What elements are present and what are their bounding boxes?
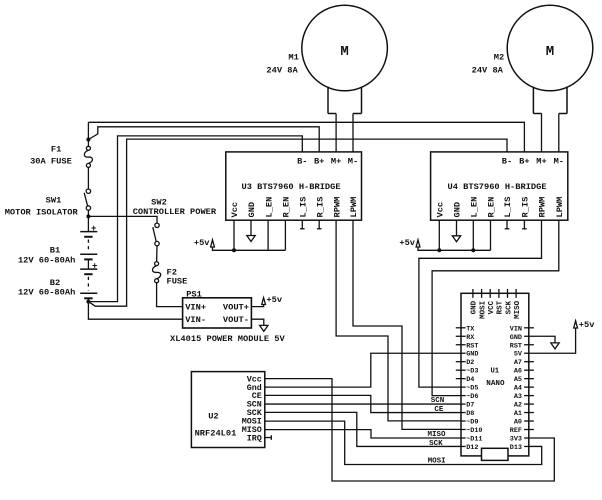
svg-text:GND: GND bbox=[453, 202, 463, 218]
label M2 24V 8A bbox=[472, 53, 505, 76]
svg-text:IRQ: IRQ bbox=[247, 433, 262, 443]
svg-text:MISO: MISO bbox=[427, 431, 446, 439]
pin U1 ~D3 unconnected bbox=[456, 369, 466, 371]
node U3 Vcc junction bbox=[232, 248, 236, 252]
svg-text:L_EN: L_EN bbox=[264, 197, 274, 218]
pin U1 ICSP VCC bbox=[489, 289, 491, 298]
svg-text:D4: D4 bbox=[466, 376, 474, 384]
svg-text:MISO: MISO bbox=[514, 300, 522, 319]
svg-text:XL4015 POWER MODULE 5V: XL4015 POWER MODULE 5V bbox=[170, 334, 285, 344]
svg-text:A5: A5 bbox=[514, 376, 522, 384]
svg-text:U1: U1 bbox=[490, 367, 499, 375]
svg-text:~D5: ~D5 bbox=[466, 385, 478, 393]
svg-text:+5v: +5v bbox=[579, 320, 595, 330]
svg-text:A7: A7 bbox=[514, 359, 522, 367]
svg-text:3V3: 3V3 bbox=[510, 435, 522, 443]
svg-text:GND: GND bbox=[466, 351, 478, 359]
svg-text:A4: A4 bbox=[514, 385, 522, 393]
svg-text:A6: A6 bbox=[514, 368, 522, 376]
svg-text:~D10: ~D10 bbox=[466, 427, 482, 435]
wire U4 RPWM to nano D5 bbox=[419, 220, 542, 387]
pin U1 A1 unconnected bbox=[524, 412, 534, 414]
wire +5v rail U3 bbox=[213, 247, 286, 250]
pin U1 REF unconnected bbox=[524, 429, 534, 431]
wire M1 terminal to U3 M+ bbox=[335, 114, 337, 152]
svg-text:VIN: VIN bbox=[510, 325, 522, 333]
svg-text:FUSE: FUSE bbox=[167, 277, 188, 287]
svg-text:Vcc: Vcc bbox=[436, 202, 446, 218]
pin U1 A7 unconnected bbox=[524, 361, 534, 363]
svg-text:12V 60-80Ah: 12V 60-80Ah bbox=[18, 255, 75, 265]
svg-text:A0: A0 bbox=[514, 419, 522, 427]
svg-text:M1: M1 bbox=[288, 53, 298, 63]
pin U4 R_IS unconnected bbox=[522, 220, 527, 229]
pin U1 A3 unconnected bbox=[524, 395, 534, 397]
wire U2 SCK to nano D12 bbox=[265, 412, 461, 446]
wire U3 GND pin bbox=[250, 220, 252, 235]
pin U1 A5 unconnected bbox=[524, 378, 534, 380]
H-bridge module U3 bbox=[226, 152, 362, 220]
pin U1 3V3 bbox=[524, 437, 529, 439]
svg-text:~D9: ~D9 bbox=[466, 419, 478, 427]
wire M2 terminal to U4 M+ bbox=[541, 114, 543, 152]
power +5v at PS1 output bbox=[262, 295, 283, 305]
ground at PS1 output bbox=[260, 325, 268, 331]
svg-text:L_EN: L_EN bbox=[470, 197, 480, 218]
svg-text:VOUT+: VOUT+ bbox=[223, 303, 249, 313]
pin U1 ~D6 bbox=[461, 395, 466, 397]
node U4 Vcc junction bbox=[437, 248, 441, 252]
wire U1 GND to ground bbox=[529, 336, 555, 343]
label B2 12V 60-80Ah bbox=[18, 278, 75, 297]
svg-text:24V 8A: 24V 8A bbox=[266, 66, 298, 76]
svg-text:B+: B+ bbox=[314, 156, 324, 166]
wire battery positive bus to U3 B+ bbox=[88, 127, 319, 152]
wire U4 LPWM to nano D6 bbox=[432, 220, 559, 395]
svg-text:+: + bbox=[91, 224, 96, 234]
svg-text:LPWM: LPWM bbox=[555, 197, 565, 218]
motor M2 bbox=[507, 5, 593, 113]
wire U2 CE to nano D8 bbox=[265, 395, 461, 412]
pin U1 ~D9 bbox=[461, 420, 466, 422]
wire U4 GND pin bbox=[456, 220, 458, 236]
connector U1 USB bbox=[482, 448, 509, 460]
svg-text:R_EN: R_EN bbox=[282, 197, 292, 218]
switch SW1 bbox=[84, 189, 90, 210]
label F2 FUSE bbox=[167, 268, 188, 287]
pin U1 D2 unconnected bbox=[456, 361, 466, 363]
pin U1 ~D10 bbox=[461, 429, 466, 431]
svg-text:M: M bbox=[546, 44, 554, 60]
wire U2 MISO to nano D11 bbox=[265, 430, 461, 438]
wire U3 Vcc to +5v rail bbox=[233, 220, 235, 250]
label M1 24V 8A bbox=[266, 53, 298, 76]
wire PS1 VOUT+ to +5v bbox=[251, 304, 263, 306]
svg-text:D12: D12 bbox=[466, 444, 478, 452]
wire U3 RPWM to nano D9 bbox=[336, 220, 461, 421]
pin U1 GND bbox=[524, 335, 529, 337]
wire F2 to PS1 VIN+ bbox=[157, 283, 183, 307]
pin U1 D7 bbox=[461, 403, 466, 405]
svg-text:U4 BTS7960 H-BRIDGE: U4 BTS7960 H-BRIDGE bbox=[448, 182, 547, 192]
svg-text:U2: U2 bbox=[208, 412, 218, 422]
wire positive rail top bbox=[87, 122, 89, 146]
pin U1 ~D11 bbox=[461, 437, 466, 439]
pin U1 RST unconnected bbox=[456, 344, 466, 346]
wire U4 Vcc to +5v rail bbox=[438, 220, 440, 250]
svg-text:A2: A2 bbox=[514, 402, 522, 410]
battery B1 bbox=[80, 224, 97, 259]
microcontroller U1 Arduino NANO bbox=[461, 293, 529, 456]
fuse F2 bbox=[153, 262, 161, 283]
pin U3 R_IS unconnected bbox=[317, 220, 322, 229]
svg-text:MOTOR ISOLATOR: MOTOR ISOLATOR bbox=[5, 207, 79, 217]
svg-text:+5v: +5v bbox=[266, 295, 282, 305]
pin U2 IRQ unconnected bbox=[265, 435, 272, 440]
node U4 L_EN junction bbox=[471, 248, 475, 252]
svg-text:Vcc: Vcc bbox=[230, 202, 240, 218]
svg-text:24V 8A: 24V 8A bbox=[472, 66, 504, 76]
svg-text:CE: CE bbox=[434, 406, 444, 414]
svg-text:RST: RST bbox=[466, 342, 478, 350]
pin U1 RST unconnected bbox=[524, 344, 534, 346]
battery B2 bbox=[80, 259, 97, 301]
svg-text:RX: RX bbox=[466, 334, 475, 342]
svg-text:B-: B- bbox=[297, 156, 307, 166]
svg-text:B+: B+ bbox=[519, 156, 529, 166]
svg-text:VOUT-: VOUT- bbox=[223, 315, 249, 325]
pin U1 D8 bbox=[461, 412, 466, 414]
switch SW2 bbox=[153, 223, 159, 246]
wire +5v rail U4 bbox=[418, 247, 491, 250]
svg-text:D7: D7 bbox=[466, 402, 474, 410]
ground at U3 GND bbox=[247, 236, 255, 242]
svg-text:B-: B- bbox=[502, 156, 512, 166]
svg-text:RPWM: RPWM bbox=[332, 197, 342, 218]
node battery negative terminal bbox=[86, 300, 90, 304]
svg-text:VIN-: VIN- bbox=[185, 315, 206, 325]
power +5v at U4 bbox=[399, 238, 420, 248]
fuse F1 bbox=[84, 146, 92, 167]
pin U1 A2 unconnected bbox=[524, 403, 534, 405]
wire U2 MOSI to nano D13 bbox=[265, 421, 542, 464]
pin U1 D4 unconnected bbox=[456, 378, 466, 380]
svg-text:TX: TX bbox=[466, 325, 475, 333]
svg-text:12V 60-80Ah: 12V 60-80Ah bbox=[18, 288, 75, 298]
svg-text:30A FUSE: 30A FUSE bbox=[30, 157, 72, 167]
label SW2 CONTROLLER POWER bbox=[133, 197, 217, 217]
wire U1 5V to +5v bbox=[529, 328, 576, 353]
pin U1 A6 unconnected bbox=[524, 369, 534, 371]
svg-text:GND: GND bbox=[247, 202, 257, 218]
svg-text:SCK: SCK bbox=[429, 440, 443, 448]
svg-text:VIN+: VIN+ bbox=[185, 303, 206, 313]
node battery positive branch bbox=[86, 138, 90, 142]
svg-text:R_EN: R_EN bbox=[487, 197, 497, 218]
pin U1 TX unconnected bbox=[456, 327, 466, 329]
svg-text:L_IS: L_IS bbox=[299, 197, 309, 218]
pin U1 ~D5 bbox=[461, 386, 466, 388]
svg-text:F1: F1 bbox=[51, 144, 61, 154]
pin U1 ICSP SCK bbox=[507, 289, 509, 298]
svg-text:B1: B1 bbox=[50, 246, 60, 256]
pin U1 5V bbox=[524, 352, 529, 354]
wire battery negative bus to U4 B- bbox=[88, 139, 507, 306]
svg-text:RPWM: RPWM bbox=[538, 197, 548, 218]
power +5v at U1 bbox=[574, 320, 596, 330]
svg-text:NANO: NANO bbox=[486, 380, 505, 388]
svg-text:GND: GND bbox=[510, 334, 522, 342]
svg-text:M-: M- bbox=[554, 156, 564, 166]
wire PS1 VOUT- to ground bbox=[251, 319, 263, 325]
pin U1 ICSP MISO bbox=[515, 289, 517, 298]
svg-text:~D6: ~D6 bbox=[466, 393, 478, 401]
pin U1 ICSP MOSI bbox=[481, 289, 483, 298]
power module PS1 bbox=[183, 298, 252, 328]
wire U4 R_EN to +5v rail bbox=[490, 220, 492, 250]
svg-text:RST: RST bbox=[497, 300, 505, 314]
svg-text:D13: D13 bbox=[510, 444, 522, 452]
motor M1 bbox=[302, 5, 388, 113]
wire M2 terminal to U4 M- bbox=[558, 114, 560, 152]
wire U2 SCN to nano D7 bbox=[265, 403, 461, 405]
svg-text:5V: 5V bbox=[514, 351, 523, 359]
svg-text:VCC: VCC bbox=[488, 300, 496, 314]
svg-text:D8: D8 bbox=[466, 410, 474, 418]
svg-text:R_IS: R_IS bbox=[521, 197, 531, 218]
svg-text:U3 BTS7960 H-BRIDGE: U3 BTS7960 H-BRIDGE bbox=[242, 182, 341, 192]
svg-text:SW1: SW1 bbox=[46, 196, 62, 206]
svg-text:GND: GND bbox=[471, 300, 479, 314]
svg-text:SCN: SCN bbox=[431, 397, 445, 405]
pin U1 A4 unconnected bbox=[524, 386, 534, 388]
pin U1 GND bbox=[461, 352, 466, 354]
svg-text:CONTROLLER POWER: CONTROLLER POWER bbox=[133, 207, 217, 217]
svg-text:~D11: ~D11 bbox=[466, 435, 482, 443]
ground at U4 GND bbox=[452, 236, 460, 242]
svg-text:L_IS: L_IS bbox=[503, 197, 513, 218]
ground at U1 GND bbox=[551, 343, 559, 349]
label B1 12V 60-80Ah bbox=[18, 246, 75, 266]
pin U1 A0 unconnected bbox=[524, 420, 534, 422]
RF module U2 NRF24L01 bbox=[191, 372, 264, 448]
H-bridge module U4 bbox=[431, 152, 568, 220]
wire battery negative bus to U3 B- bbox=[88, 136, 302, 302]
wire SW2 to F2 bbox=[156, 246, 158, 262]
wire U3 R_EN to +5v rail bbox=[284, 220, 286, 250]
svg-text:~D3: ~D3 bbox=[466, 368, 478, 376]
svg-text:+5v: +5v bbox=[194, 238, 210, 248]
svg-text:D2: D2 bbox=[466, 359, 474, 367]
svg-text:R_IS: R_IS bbox=[315, 197, 325, 218]
pin U1 ICSP GND bbox=[472, 289, 474, 298]
svg-text:SCK: SCK bbox=[505, 300, 513, 314]
svg-text:REF: REF bbox=[510, 427, 522, 435]
label F1 30A FUSE bbox=[30, 144, 72, 166]
pin U4 L_IS unconnected bbox=[505, 220, 510, 229]
wire battery positive to SW2 bbox=[88, 216, 157, 223]
pin U1 RX unconnected bbox=[456, 335, 466, 337]
svg-text:+: + bbox=[92, 262, 97, 272]
svg-text:M+: M+ bbox=[331, 156, 341, 166]
svg-text:M: M bbox=[340, 44, 348, 60]
svg-text:A1: A1 bbox=[514, 410, 522, 418]
pin U1 ICSP RST bbox=[498, 289, 500, 298]
wire U4 L_EN to +5v rail bbox=[472, 220, 474, 250]
wire SW1 to battery B1 bbox=[87, 210, 89, 231]
pin U3 L_IS unconnected bbox=[300, 220, 305, 229]
node motor isolator output bbox=[86, 214, 90, 218]
wire U2 Vcc to nano 3V3 bbox=[265, 379, 555, 481]
label SW1 MOTOR ISOLATOR bbox=[5, 196, 79, 218]
wire U3 L_EN to +5v rail bbox=[267, 220, 269, 250]
wire battery positive bus to U4 B+ bbox=[88, 122, 524, 152]
svg-text:SW2: SW2 bbox=[151, 197, 167, 207]
svg-text:NRF24L01: NRF24L01 bbox=[195, 429, 237, 439]
pin U1 VIN unconnected bbox=[524, 327, 534, 329]
svg-text:PS1: PS1 bbox=[186, 290, 202, 300]
wire battery negative to PS1 VIN- bbox=[88, 302, 182, 320]
svg-text:MOSI: MOSI bbox=[428, 457, 446, 465]
pin U1 D13 bbox=[524, 445, 529, 447]
svg-text:A3: A3 bbox=[514, 393, 522, 401]
wire U3 LPWM to nano D10 bbox=[353, 220, 461, 429]
svg-text:M2: M2 bbox=[494, 53, 504, 63]
svg-text:MOSI: MOSI bbox=[479, 301, 487, 319]
wire F1 to SW1 bbox=[87, 167, 89, 189]
svg-text:LPWM: LPWM bbox=[349, 197, 359, 218]
svg-text:RST: RST bbox=[510, 342, 522, 350]
wire M1 terminal to U3 M- bbox=[352, 114, 354, 152]
svg-text:M+: M+ bbox=[536, 156, 546, 166]
wire U2 Gnd to nano GND bbox=[265, 353, 461, 387]
power +5v at U3 bbox=[194, 238, 215, 248]
svg-text:M-: M- bbox=[348, 156, 358, 166]
pin U1 D12 bbox=[461, 445, 466, 447]
svg-text:+5v: +5v bbox=[399, 238, 415, 248]
